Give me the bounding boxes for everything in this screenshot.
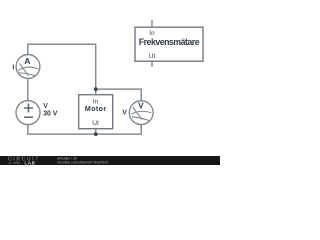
- frequency meter box (Frekvensmätare): [135, 20, 203, 67]
- svg-text:30 V: 30 V: [43, 111, 58, 118]
- ammeter M1: [16, 55, 40, 79]
- voltage source V1: [16, 101, 40, 125]
- svg-text:LAB: LAB: [25, 160, 36, 165]
- svg-text:I: I: [12, 65, 14, 72]
- svg-text:Frekvensmätare: Frekvensmätare: [139, 37, 200, 47]
- svg-text:V: V: [122, 109, 127, 116]
- wire: bottom stub: [151, 61, 153, 67]
- wire: top stub: [151, 20, 153, 27]
- motor box (subcircuit): [79, 95, 113, 129]
- wire: motor bottom stub: [95, 128, 97, 134]
- wire: ammeter bottom to source top: [27, 78, 29, 100]
- svg-text:circuitlab.com/c/8dq4wk76mpf5b: circuitlab.com/c/8dq4wk76mpf5bx2: [57, 160, 108, 164]
- svg-text:V: V: [43, 103, 48, 110]
- svg-text:Ut: Ut: [149, 53, 156, 60]
- svg-text:Motor: Motor: [85, 104, 107, 113]
- wire: source bottom to bottom rail: [28, 124, 141, 134]
- svg-text:Ut: Ut: [92, 120, 99, 127]
- node: junction above motor: [94, 87, 98, 91]
- node: junction below motor: [94, 132, 98, 136]
- svg-text:V: V: [138, 102, 144, 111]
- footer watermark bar: [0, 156, 220, 165]
- wire: branch to voltmeter: [96, 89, 142, 101]
- voltmeter M2: [129, 101, 153, 125]
- svg-text:A: A: [24, 56, 30, 66]
- wire: top rail from ammeter to motor branch: [28, 44, 96, 94]
